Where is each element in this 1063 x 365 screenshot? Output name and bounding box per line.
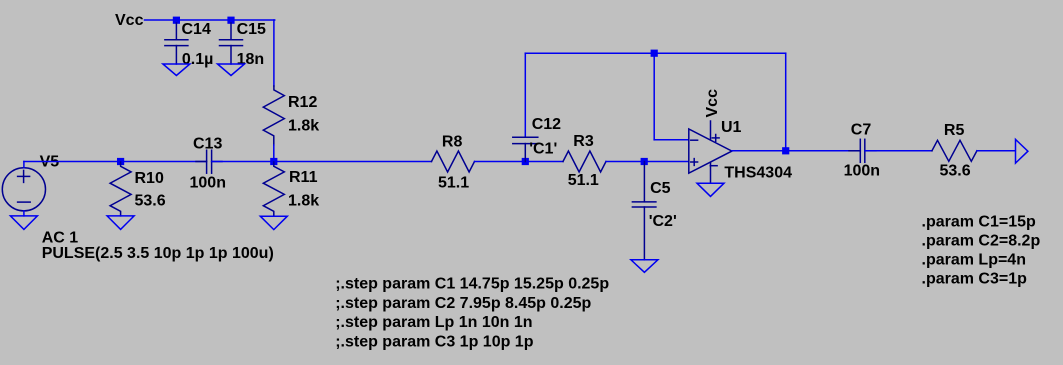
value 'C2' (C5)	[649, 213, 677, 230]
resistor R12	[263, 86, 284, 145]
capacitor C15	[220, 23, 243, 64]
svg-text:53.6: 53.6	[135, 193, 166, 210]
label C5	[650, 180, 671, 197]
svg-text:.param C3=1p: .param C3=1p	[922, 271, 1028, 288]
label R3	[573, 133, 594, 150]
svg-text:100n: 100n	[190, 175, 226, 192]
value 1.8k (R11)	[288, 193, 319, 210]
value 53.6 (R10)	[135, 193, 166, 210]
svg-text:C12: C12	[532, 116, 561, 133]
svg-text:C7: C7	[851, 122, 872, 139]
value 18n	[237, 51, 265, 68]
svg-text:THS4304: THS4304	[724, 165, 792, 182]
capacitor C7	[849, 139, 876, 162]
svg-text:;.step param C2 7.95p 8.45p 0.: ;.step param C2 7.95p 8.45p 0.25p	[335, 295, 591, 312]
label THS4304	[724, 165, 792, 182]
wire C7 to R5	[865, 150, 932, 152]
capacitor C5	[632, 162, 656, 260]
wire feedback right drop to output	[785, 53, 787, 151]
wire V5 top stub	[23, 162, 25, 168]
label V5	[40, 154, 60, 171]
ground under C5	[631, 260, 658, 273]
value 0.1µ	[182, 51, 213, 68]
svg-text:C15: C15	[237, 21, 266, 38]
resistor R5	[932, 140, 977, 161]
svg-text:1.8k: 1.8k	[288, 118, 319, 135]
label U1	[721, 119, 742, 136]
svg-text:;.step param C1 14.75p 15.25p: ;.step param C1 14.75p 15.25p 0.25p	[335, 276, 609, 293]
op-amp U1	[689, 121, 732, 183]
svg-text:C13: C13	[193, 136, 222, 153]
resistor R10	[110, 162, 131, 216]
value 1.8k (R12)	[288, 118, 319, 135]
wire main row V5 to C13	[24, 161, 206, 163]
V5 source text PULSE	[42, 245, 274, 262]
svg-text:51.1: 51.1	[568, 172, 599, 189]
svg-text:51.1: 51.1	[438, 175, 469, 192]
resistor R8	[432, 151, 475, 172]
svg-text:;.step param C3 1p 10p 1p: ;.step param C3 1p 10p 1p	[335, 333, 534, 350]
svg-text:R12: R12	[288, 94, 317, 111]
svg-text:Vcc: Vcc	[704, 89, 721, 118]
node Vcc label op-amp (vertical)	[704, 89, 721, 118]
value 100n (C13)	[190, 175, 226, 192]
svg-text:C14: C14	[182, 21, 211, 38]
wire feedback down to inverting input	[653, 53, 655, 140]
svg-text:.param Lp=4n: .param Lp=4n	[922, 252, 1026, 269]
label R11	[289, 169, 318, 186]
wire to inverting input	[654, 139, 689, 141]
ground under op-amp	[697, 183, 724, 196]
svg-text:'C1': 'C1'	[529, 141, 557, 158]
svg-text:53.6: 53.6	[940, 163, 971, 180]
junction output node	[782, 147, 789, 154]
V5 source text AC 1	[42, 230, 79, 247]
wire R5 to output port	[977, 150, 1015, 152]
svg-text:;.step param Lp 1n 10n 1n: ;.step param Lp 1n 10n 1n	[335, 314, 532, 331]
value 'C1' (C12)	[529, 141, 557, 158]
wire feedback down to C12	[524, 53, 526, 137]
svg-text:18n: 18n	[237, 51, 265, 68]
ground under R10	[107, 216, 134, 230]
svg-text:1.8k: 1.8k	[288, 193, 319, 210]
svg-text:R11: R11	[289, 169, 318, 186]
svg-text:R8: R8	[442, 134, 463, 151]
value 51.1 (R8)	[438, 175, 469, 192]
capacitor C12	[513, 137, 538, 161]
label C14	[182, 21, 211, 38]
resistor R11	[263, 162, 284, 216]
value 100n (C7)	[844, 163, 880, 180]
svg-text:0.1µ: 0.1µ	[182, 51, 213, 68]
wire Vcc rail horizontal	[145, 19, 275, 21]
output port arrow	[1016, 139, 1028, 163]
value 51.1 (R3)	[568, 172, 599, 189]
ground under C14	[163, 64, 190, 76]
wire main row R8 to R3	[475, 161, 564, 163]
ground under R11	[260, 216, 287, 229]
svg-text:.param C1=15p: .param C1=15p	[922, 214, 1037, 231]
junction C14/Vcc	[173, 17, 180, 24]
label C7	[851, 122, 872, 139]
label C15	[237, 21, 266, 38]
junction R11/R12 node	[270, 158, 277, 165]
svg-text:100n: 100n	[844, 163, 880, 180]
directive text .param block	[922, 214, 1041, 288]
svg-text:R5: R5	[944, 122, 965, 139]
label R5	[944, 122, 965, 139]
label R10	[135, 170, 164, 187]
junction R10	[117, 158, 124, 165]
svg-text:.param C2=8.2p: .param C2=8.2p	[922, 233, 1041, 250]
node Vcc label	[115, 12, 144, 29]
capacitor C13	[196, 150, 222, 173]
voltage source V5	[2, 168, 45, 211]
label C13	[193, 136, 222, 153]
junction C15/Vcc	[227, 17, 234, 24]
capacitor C14	[165, 23, 188, 64]
svg-text:U1: U1	[721, 119, 742, 136]
svg-text:'C2': 'C2'	[649, 213, 677, 230]
wire Vcc rail to R12 vertical	[273, 20, 275, 86]
ground under V5	[10, 216, 37, 230]
label C12	[532, 116, 561, 133]
junction C5 node	[641, 158, 648, 165]
junction C12 node	[522, 158, 529, 165]
svg-text:AC 1: AC 1	[42, 230, 79, 247]
junction feedback/inverting	[651, 50, 658, 57]
wire feedback top rail	[525, 52, 785, 54]
wire main row C13 to R8	[212, 161, 432, 163]
ground under C15	[218, 64, 245, 76]
svg-text:C5: C5	[650, 180, 671, 197]
wire main row R3 to op-amp	[606, 161, 689, 163]
svg-text:R10: R10	[135, 170, 164, 187]
label R12	[288, 94, 317, 111]
svg-text:PULSE(2.5 3.5 10p 1p 1p 100u): PULSE(2.5 3.5 10p 1p 1p 100u)	[42, 245, 274, 262]
wire V5 bottom stub	[23, 211, 25, 216]
label R8	[442, 134, 463, 151]
wire output to C7	[732, 150, 860, 152]
value 53.6 (R5)	[940, 163, 971, 180]
svg-text:R3: R3	[573, 133, 594, 150]
wire R12 to node	[273, 145, 275, 162]
resistor R3	[563, 151, 606, 172]
directive text .step block	[335, 276, 609, 351]
svg-text:Vcc: Vcc	[115, 12, 144, 29]
